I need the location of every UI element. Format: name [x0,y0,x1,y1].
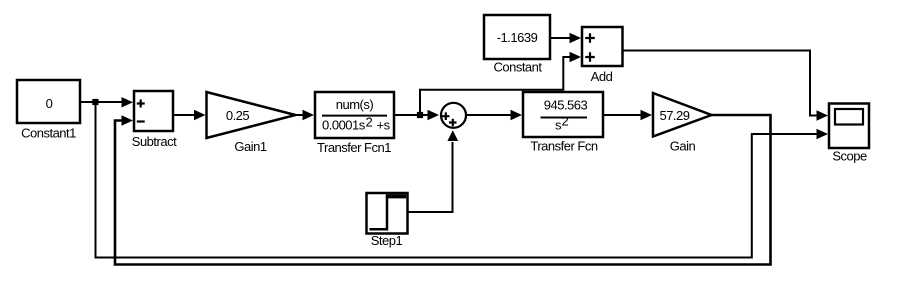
svg-text:0.25: 0.25 [226,108,250,123]
wire sum to Transfer Fcn [466,110,522,120]
svg-text:Add: Add [591,69,613,84]
svg-text:Step1: Step1 [371,233,403,248]
svg-text:0: 0 [46,96,53,111]
svg-text:num(s): num(s) [336,97,374,112]
wire Gain feedback to Subtract minus input [115,115,771,265]
svg-text:Constant1: Constant1 [21,126,76,141]
gain block Gain1 [207,92,296,154]
wire Constant to Add [550,33,581,43]
wire Transfer Fcn to Gain [603,110,652,120]
constant block Constant1 [17,80,80,141]
svg-text:Transfer Fcn1: Transfer Fcn1 [317,140,391,155]
svg-text:2: 2 [366,115,373,130]
svg-text:-1.1639: -1.1639 [497,30,538,45]
node junction on Constant1 output [92,99,98,105]
sum block [441,103,466,128]
transfer function block Transfer Fcn [523,92,603,154]
svg-text:Scope: Scope [832,149,867,164]
wire Add to Scope upper input [623,51,829,121]
svg-text:Gain1: Gain1 [234,139,266,154]
wire Step1 to sum bottom input [408,130,459,212]
svg-text:Transfer Fcn: Transfer Fcn [530,139,597,154]
svg-text:945.563: 945.563 [544,98,588,113]
constant block Constant [484,15,550,75]
svg-text:+s: +s [377,118,391,133]
add block [582,27,623,84]
wire Subtract to Gain1 [173,110,206,120]
svg-text:Constant: Constant [493,60,542,75]
svg-text:2: 2 [562,114,569,129]
svg-text:57.29: 57.29 [659,108,689,123]
wire Gain1 to Transfer Fcn1 [296,110,315,120]
node junction before sum [417,112,423,118]
svg-text:0.0001s: 0.0001s [322,118,366,133]
wire Constant1 branch to Scope lower input [96,102,820,258]
gain block Gain [653,93,712,154]
transfer function block Transfer Fcn1 [315,92,394,155]
subtract block [132,91,177,149]
scope block [829,104,869,164]
wire junction to Add second input [420,52,581,115]
svg-text:Gain: Gain [670,139,696,154]
step block Step1 [367,193,408,248]
wire Constant1 to Subtract [81,97,133,107]
svg-text:Subtract: Subtract [132,134,177,149]
wire Transfer Fcn1 to sum [394,110,439,120]
